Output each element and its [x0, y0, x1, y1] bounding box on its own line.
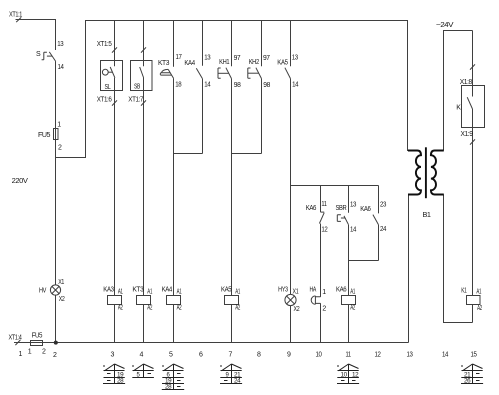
svg-text:HV: HV [39, 287, 47, 294]
svg-text:A1: A1 [177, 288, 182, 295]
svg-text:97: 97 [263, 55, 270, 62]
svg-text:12: 12 [321, 227, 327, 234]
svg-text:A1: A1 [235, 288, 240, 295]
svg-text:X2: X2 [294, 306, 300, 313]
svg-text:X1: X1 [58, 279, 64, 286]
svg-text:13: 13 [350, 202, 356, 209]
svg-text:14: 14 [442, 352, 448, 359]
svg-text:A1: A1 [476, 288, 481, 295]
svg-text:14: 14 [204, 81, 210, 88]
svg-text:XT1:4: XT1:4 [9, 335, 22, 342]
svg-text:11: 11 [346, 352, 352, 359]
svg-text:KT3: KT3 [132, 286, 144, 293]
svg-text:98: 98 [263, 82, 270, 89]
svg-text:2: 2 [58, 145, 62, 152]
svg-text:A1: A1 [350, 288, 355, 295]
svg-text:A2: A2 [147, 305, 152, 312]
svg-text:S: S [36, 51, 41, 58]
svg-text:4: 4 [140, 352, 144, 359]
svg-text:A2: A2 [177, 305, 182, 312]
svg-text:8: 8 [257, 352, 261, 359]
svg-text:14: 14 [350, 227, 356, 234]
svg-text:6: 6 [199, 352, 203, 359]
svg-text:1: 1 [28, 349, 32, 356]
svg-text:KA5: KA5 [277, 59, 288, 66]
svg-text:2: 2 [322, 306, 326, 313]
svg-text:XT1:5: XT1:5 [97, 41, 112, 48]
svg-text:A1: A1 [147, 288, 152, 295]
svg-text:9: 9 [287, 352, 291, 359]
svg-text:KA6: KA6 [336, 286, 347, 293]
svg-text:13: 13 [292, 55, 298, 62]
svg-text:13: 13 [204, 54, 210, 61]
svg-text:1: 1 [322, 289, 326, 296]
svg-text:KA4: KA4 [162, 286, 173, 293]
svg-text:SL: SL [105, 84, 111, 91]
svg-text:5: 5 [169, 352, 173, 359]
svg-text:~24V: ~24V [436, 22, 454, 29]
svg-text:18: 18 [175, 81, 181, 88]
svg-text:KH2: KH2 [249, 59, 260, 66]
svg-text:23: 23 [380, 202, 386, 209]
svg-text:KA6: KA6 [360, 206, 371, 213]
svg-text:1: 1 [19, 351, 23, 358]
svg-text:XT1:6: XT1:6 [97, 97, 112, 104]
svg-text:B1: B1 [423, 212, 432, 219]
svg-text:13: 13 [407, 352, 413, 359]
svg-text:11: 11 [321, 201, 327, 208]
svg-text:HA: HA [310, 287, 317, 294]
svg-text:A2: A2 [118, 305, 123, 312]
svg-text:13: 13 [57, 41, 63, 48]
svg-text:FU5: FU5 [32, 333, 43, 340]
svg-text:2: 2 [53, 352, 57, 359]
svg-text:X1:9: X1:9 [461, 131, 474, 138]
svg-text:K: K [456, 104, 461, 111]
svg-text:1: 1 [57, 121, 61, 128]
svg-text:10: 10 [316, 352, 322, 359]
svg-text:X2: X2 [59, 296, 65, 303]
svg-text:SB: SB [134, 84, 141, 91]
svg-text:2: 2 [42, 349, 46, 356]
svg-text:XT1:1: XT1:1 [9, 12, 22, 19]
svg-text:A1: A1 [118, 288, 123, 295]
svg-text:14: 14 [292, 82, 298, 89]
svg-text:24: 24 [380, 226, 386, 233]
svg-text:KH1: KH1 [219, 59, 230, 66]
svg-text:98: 98 [234, 82, 241, 89]
svg-text:A2: A2 [477, 305, 482, 312]
svg-text:14: 14 [58, 64, 64, 71]
svg-text:KA4: KA4 [184, 60, 195, 67]
svg-text:A2: A2 [235, 305, 240, 312]
svg-text:12: 12 [375, 352, 381, 359]
svg-text:KT3: KT3 [158, 60, 170, 67]
svg-text:3: 3 [111, 352, 115, 359]
svg-text:17: 17 [176, 54, 182, 61]
svg-text:K1: K1 [461, 288, 467, 295]
svg-text:A2: A2 [350, 305, 355, 312]
svg-text:SBR: SBR [336, 205, 347, 212]
svg-text:15: 15 [471, 352, 477, 359]
svg-text:FU5: FU5 [38, 132, 51, 139]
svg-text:XT1:7: XT1:7 [128, 97, 143, 104]
svg-text:97: 97 [234, 55, 241, 62]
svg-text:X1:8: X1:8 [460, 79, 473, 86]
svg-text:X1: X1 [293, 289, 299, 296]
svg-text:KA3: KA3 [103, 286, 114, 293]
svg-text:HY3: HY3 [278, 287, 288, 294]
svg-text:KA6: KA6 [306, 205, 317, 212]
svg-text:7: 7 [229, 352, 233, 359]
svg-text:KA5: KA5 [221, 286, 232, 293]
svg-text:220V: 220V [12, 178, 29, 185]
